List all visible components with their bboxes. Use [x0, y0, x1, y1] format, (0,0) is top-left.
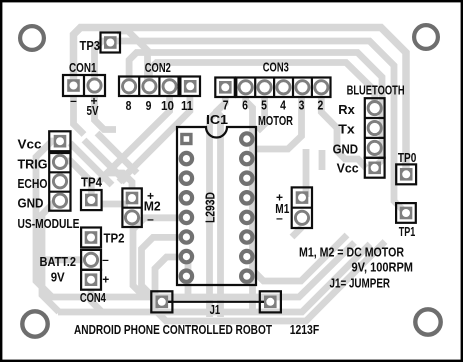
op-amp IC1 L293D body [177, 127, 256, 285]
wire diag US to TP2 area [70, 143, 112, 185]
svg-text:–: – [102, 253, 109, 267]
wire stub below CON3-2 [319, 150, 326, 170]
pin 1 pad IC1 [180, 133, 192, 145]
wire CON3-5 merge stub [258, 97, 265, 131]
svg-text:ECHO: ECHO [18, 176, 48, 191]
svg-text:9V: 9V [51, 270, 65, 285]
svg-text:Tx: Tx [338, 122, 355, 137]
wire CON3-2 to BT Vcc [321, 96, 366, 168]
wire top1 CON1- to TP0 [74, 28, 407, 175]
svg-text:TP1: TP1 [399, 224, 416, 239]
connector CON3 [215, 60, 330, 113]
wire IC pad loop3 bottom line B3 to fan [155, 242, 385, 322]
connector US-MODULE [18, 131, 80, 231]
connector BLUETOOTH [333, 83, 405, 178]
wire top2 CON1+ to TP1 [95, 41, 407, 213]
wire fan line A from IC right [253, 235, 348, 281]
svg-text:US-MODULE: US-MODULE [18, 216, 80, 231]
svg-text:CON4: CON4 [80, 290, 107, 305]
svg-text:CON3: CON3 [263, 60, 289, 75]
mounting hole bottom-left [22, 311, 47, 336]
wire bottom line B2 to fan [58, 244, 370, 312]
wire diag US to M2 area [84, 140, 126, 182]
wire notch entry [217, 96, 226, 116]
test point TP0 [396, 150, 416, 184]
wire top4 CON2-9 to BT Rx [149, 63, 374, 109]
svg-text:L293D: L293D [202, 192, 217, 223]
wire behind IC left pads down [185, 262, 192, 294]
svg-text:3: 3 [299, 98, 305, 113]
wire CON2-11 diagonal [119, 95, 190, 182]
svg-text:5V: 5V [87, 103, 99, 118]
wire M1 minus stub [292, 227, 302, 237]
svg-text:–: – [276, 211, 283, 225]
svg-text:J1: J1 [210, 302, 221, 317]
traces [36, 28, 406, 322]
svg-text:TRIG: TRIG [18, 157, 48, 172]
test point TP2 [81, 228, 124, 248]
svg-text:–: – [70, 94, 77, 108]
svg-text:11: 11 [181, 98, 193, 113]
wire top3 CON2-8 to BT Vcc [129, 53, 382, 168]
wire TRIG to TP4 [60, 161, 91, 200]
svg-text:6: 6 [242, 98, 248, 113]
svg-text:MOTOR: MOTOR [258, 113, 293, 128]
svg-text:CON2: CON2 [145, 60, 171, 75]
connector CON2 [119, 60, 200, 113]
svg-text:TP4: TP4 [81, 175, 103, 190]
svg-text:J1= JUMPER: J1= JUMPER [330, 276, 391, 291]
mounting hole bottom-right [415, 309, 440, 334]
connector M1 [275, 187, 312, 228]
svg-text:Rx: Rx [338, 102, 355, 117]
wire IC inner v1 [210, 112, 217, 317]
wire 5V down [95, 96, 117, 130]
wire bottom line B1 to fan [50, 243, 355, 298]
svg-text:–: – [147, 212, 154, 226]
wire IC pad loop1 join bundle [133, 218, 186, 297]
wire CON2-10 diagonal [99, 95, 170, 182]
svg-text:TP2: TP2 [104, 231, 125, 246]
svg-text:M1, M2 = DC MOTOR: M1, M2 = DC MOTOR [299, 245, 404, 260]
test point TP1 [396, 203, 416, 239]
svg-text:+: + [102, 273, 109, 287]
svg-text:CON1: CON1 [69, 60, 97, 75]
wire branch to CON4 minus [42, 256, 83, 263]
wire TP3 to CON2-9 [117, 31, 148, 86]
jumper J1 [151, 291, 281, 317]
mounting hole top-left [20, 26, 44, 50]
wire GND down left column [42, 201, 60, 312]
svg-text:GND: GND [333, 142, 359, 157]
test point TP4 [81, 175, 103, 211]
svg-text:TP0: TP0 [398, 150, 417, 165]
wire US Vcc down left column [36, 141, 60, 297]
wire diag US to M2 top [97, 133, 137, 173]
wire TP4 to M2 [101, 201, 128, 208]
svg-text:BATT.2: BATT.2 [40, 254, 77, 269]
wire IC inner v2 [217, 112, 221, 317]
test point TP3 [80, 33, 121, 54]
svg-text:5: 5 [261, 98, 267, 113]
svg-text:TP3: TP3 [80, 38, 101, 53]
wire M1 plus feed [303, 149, 310, 197]
svg-text:IC1: IC1 [206, 112, 228, 127]
connector CON1 [63, 60, 105, 118]
svg-text:9: 9 [146, 98, 152, 113]
svg-text:8: 8 [126, 98, 132, 113]
connector M2 [122, 188, 160, 227]
wire CON3-3 corner to IC right [253, 97, 302, 149]
svg-text:GND: GND [18, 196, 44, 211]
svg-text:Vcc: Vcc [337, 161, 359, 176]
svg-text:Vcc: Vcc [18, 137, 42, 152]
mounting hole top-right [414, 25, 438, 49]
svg-text:BLUETOOTH: BLUETOOTH [347, 83, 405, 98]
wire CON4 plus to bundle [91, 290, 102, 312]
svg-text:ANDROID PHONE CONTROLLED ROBOT: ANDROID PHONE CONTROLLED ROBOT [74, 322, 272, 337]
svg-text:4: 4 [280, 98, 286, 113]
connector CON4 [40, 250, 110, 305]
svg-text:1213F: 1213F [290, 322, 320, 337]
svg-text:7: 7 [223, 98, 229, 113]
wire CON1- down [74, 96, 85, 135]
wire IC pad loop2 join bundle [142, 237, 187, 297]
svg-text:9V, 100RPM: 9V, 100RPM [352, 260, 414, 275]
wire CON3-6 down right side of IC [246, 97, 253, 313]
svg-text:2: 2 [318, 98, 324, 113]
wire M2 up-left [106, 173, 132, 189]
svg-text:10: 10 [161, 98, 174, 113]
